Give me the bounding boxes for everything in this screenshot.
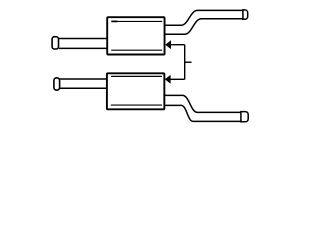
seam top M2 xyxy=(111,75,162,77)
body M1 xyxy=(107,17,164,54)
outlet pipe end cap M2 xyxy=(241,112,248,122)
inlet pipe M2 xyxy=(59,79,107,88)
inlet flange tip M2 xyxy=(54,78,60,90)
body M2 xyxy=(107,73,164,109)
seam top M1 xyxy=(111,20,162,22)
callout arrow A1 (points at M1) xyxy=(165,40,185,49)
leader tick xyxy=(185,61,192,63)
outlet pipe M2 (S-bend down) xyxy=(164,95,241,112)
outlet pipe M1 (S-bend up) xyxy=(165,10,243,25)
seam top M1 weld dash xyxy=(112,20,118,22)
seam bottom M1 xyxy=(111,49,162,51)
inlet flange tip M1 xyxy=(52,37,58,49)
seam bottom M2 xyxy=(111,104,162,106)
muffler M1 (top silencer) xyxy=(52,10,248,55)
callout arrow A2 (points at M2) xyxy=(165,75,185,84)
inlet pipe M1 xyxy=(59,39,107,49)
muffler M2 (bottom silencer) xyxy=(54,73,248,122)
outlet pipe end cap M1 xyxy=(243,10,248,19)
leader bracket vertical xyxy=(184,45,186,80)
